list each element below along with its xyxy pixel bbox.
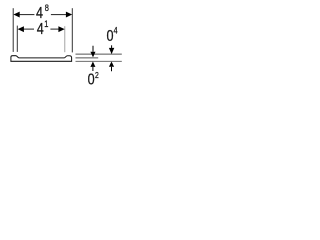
arrow left 4_8 — [13, 12, 19, 18]
dimension line 4_8 — [19, 14, 34, 16]
svg-text:1: 1 — [44, 18, 48, 29]
profile cross-section — [11, 56, 72, 62]
extension line left (4_1) — [16, 26, 18, 52]
0_4 up arrow — [109, 62, 114, 67]
svg-text:4: 4 — [114, 25, 118, 36]
svg-text:4: 4 — [37, 21, 44, 39]
0_2 down arrow — [92, 46, 94, 52]
dimension line 4_1 — [23, 28, 34, 30]
extension line left (4_8) — [12, 8, 14, 52]
extension line right (4_8) — [71, 8, 73, 52]
svg-text:0: 0 — [107, 28, 114, 46]
arrow left 4_1 — [18, 26, 24, 32]
0_2 up arrow — [90, 62, 95, 67]
reference line C (bottom) — [76, 60, 122, 62]
reference line A (top) — [76, 53, 122, 55]
0_4 down arrow — [111, 45, 113, 48]
svg-text:0: 0 — [88, 71, 95, 89]
svg-text:2: 2 — [95, 70, 99, 80]
reference line B (middle) — [76, 57, 99, 59]
arrow right 4_1 — [58, 26, 64, 32]
extension line right (4_1) — [64, 26, 66, 52]
svg-text:8: 8 — [45, 2, 49, 13]
arrow right 4_8 — [66, 12, 72, 18]
